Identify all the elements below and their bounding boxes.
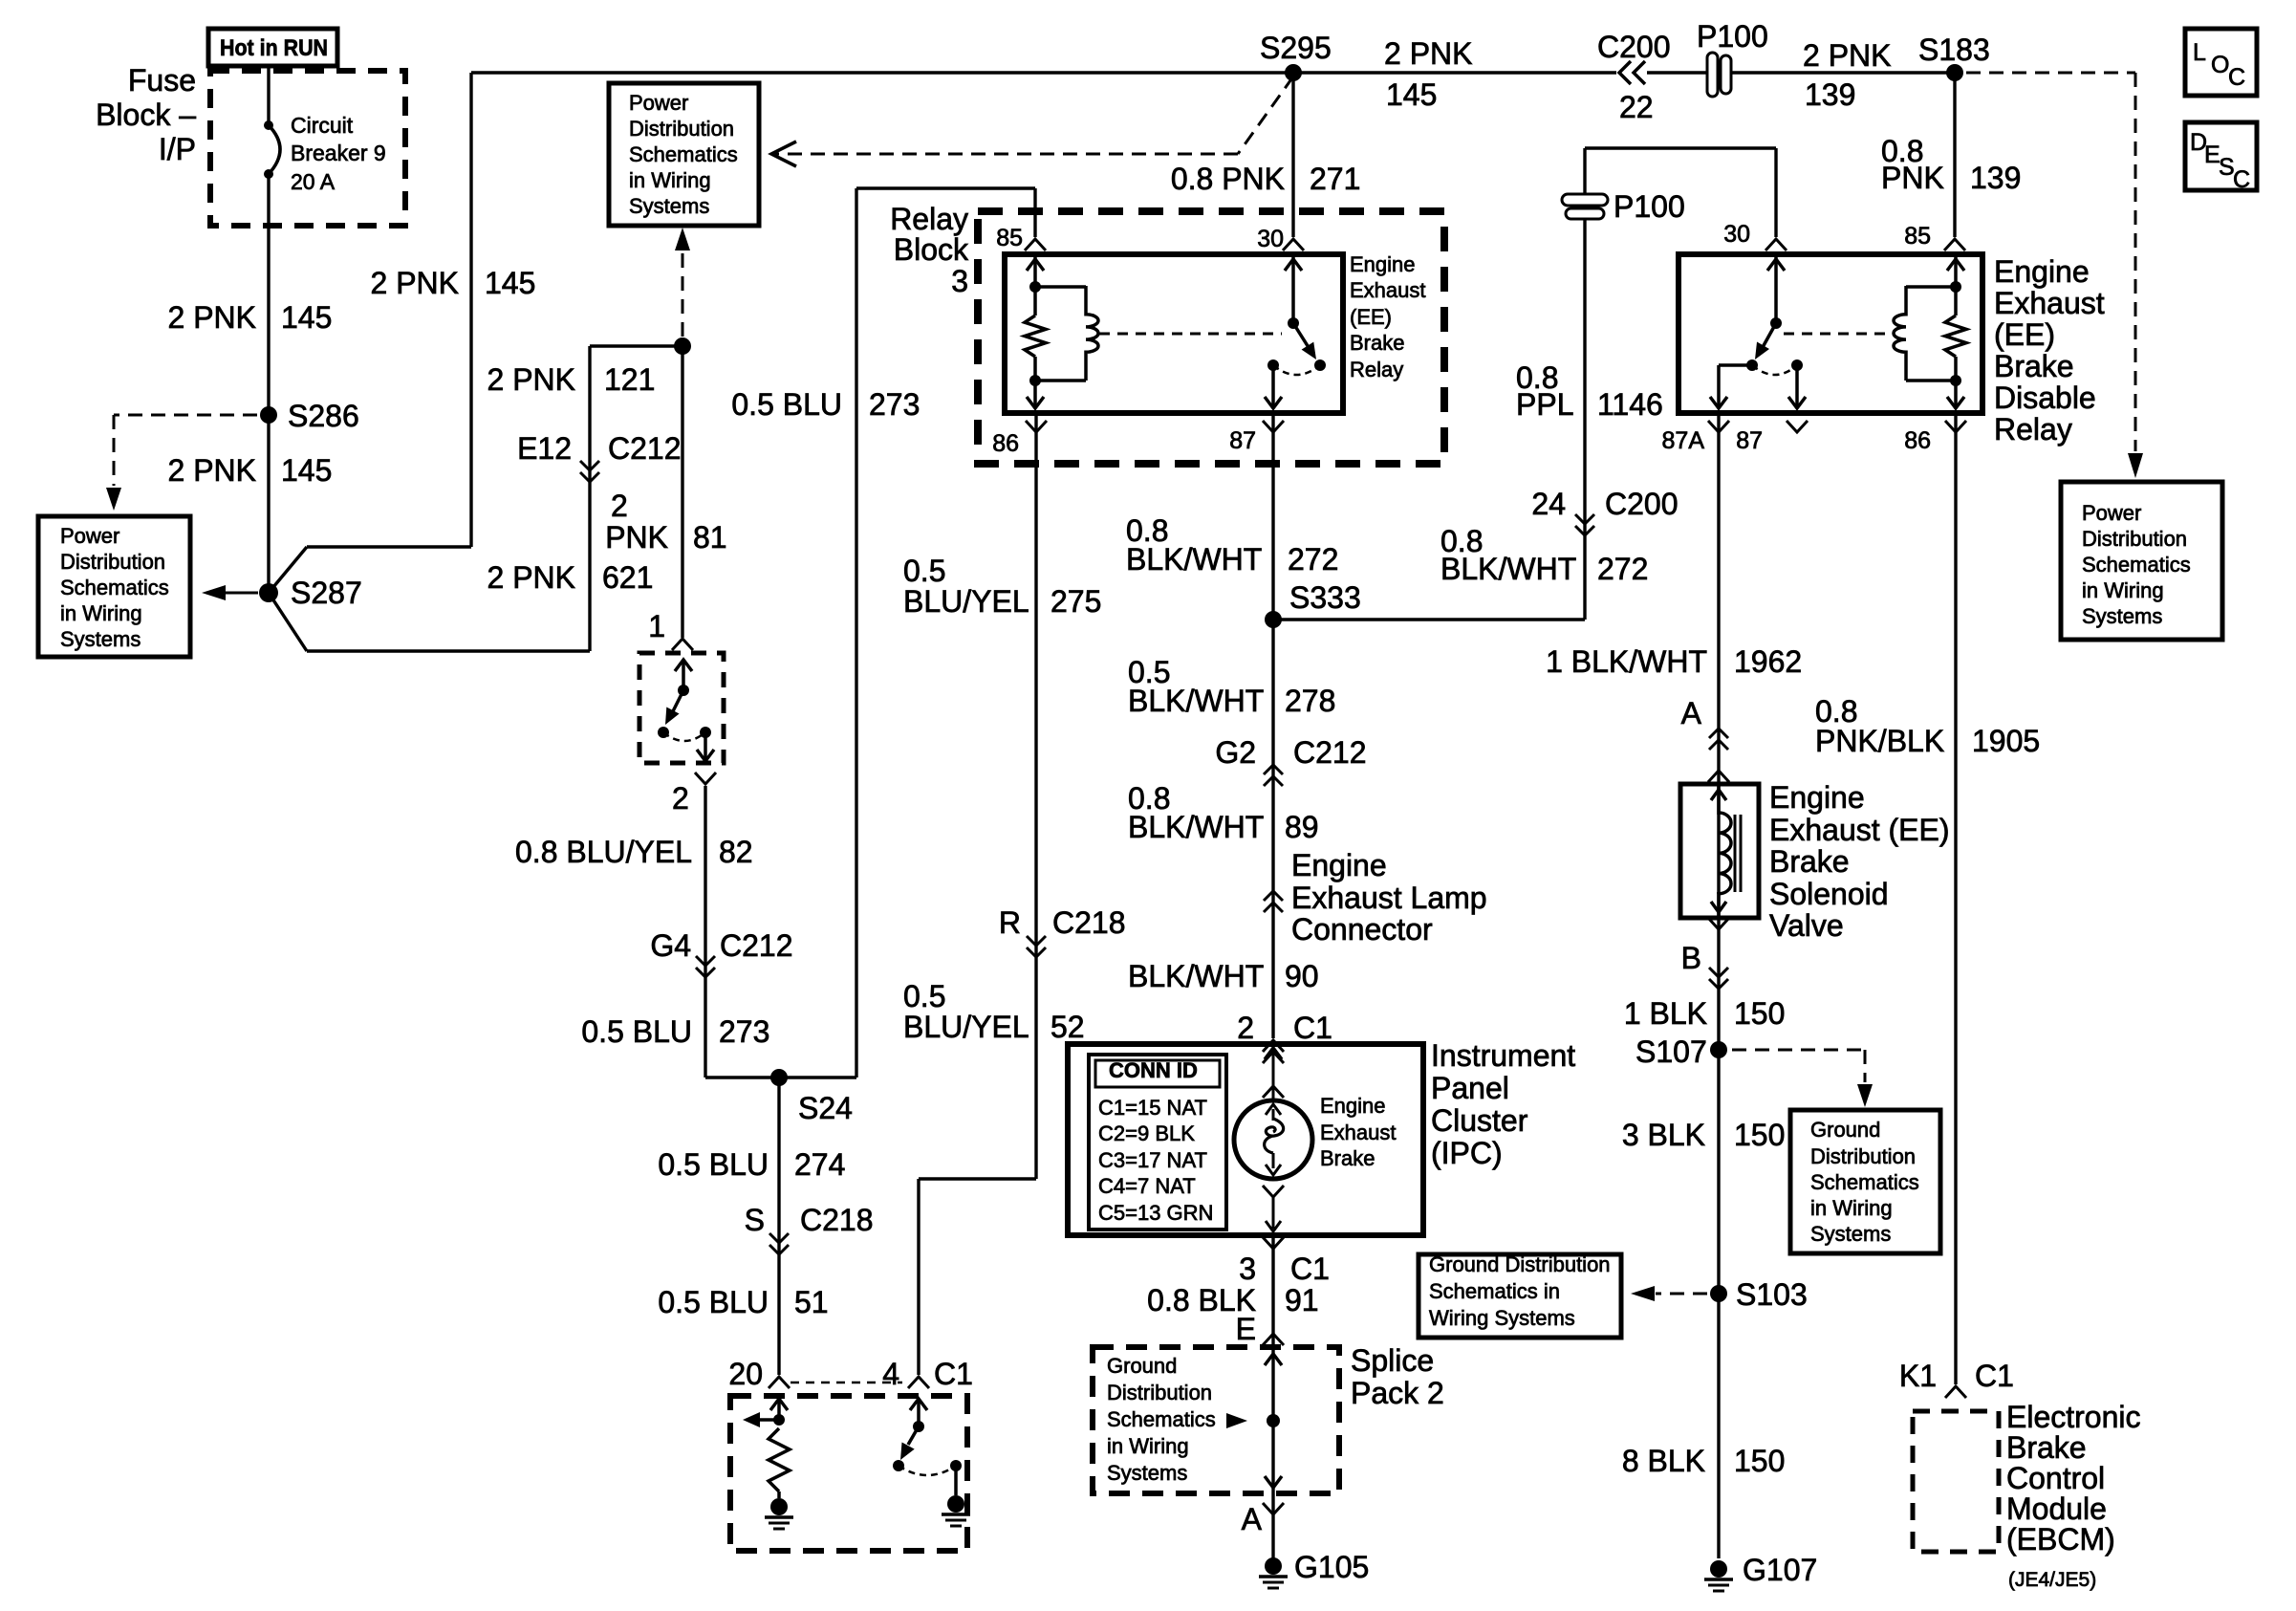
svg-text:275: 275	[1051, 584, 1101, 619]
svg-text:Pack 2: Pack 2	[1351, 1376, 1444, 1410]
svg-text:Valve: Valve	[1769, 908, 1844, 943]
svg-text:0.8 PNK: 0.8 PNK	[1171, 162, 1285, 196]
svg-text:Systems: Systems	[60, 627, 141, 651]
svg-text:Disable: Disable	[1994, 381, 2096, 415]
svg-text:S286: S286	[288, 399, 359, 433]
svg-text:S24: S24	[798, 1091, 853, 1125]
svg-text:Schematics: Schematics	[1810, 1170, 1919, 1194]
svg-text:in Wiring: in Wiring	[1107, 1434, 1189, 1458]
svg-text:4: 4	[882, 1357, 899, 1391]
svg-text:0.5: 0.5	[903, 979, 945, 1013]
svg-text:BLK/WHT: BLK/WHT	[1128, 959, 1264, 993]
svg-text:1 BLK/WHT: 1 BLK/WHT	[1546, 644, 1707, 679]
svg-text:(EE): (EE)	[1350, 305, 1392, 329]
svg-text:S103: S103	[1736, 1277, 1808, 1312]
svg-text:Power: Power	[629, 91, 688, 115]
svg-text:3 BLK: 3 BLK	[1622, 1118, 1705, 1152]
svg-text:20 A: 20 A	[291, 169, 336, 194]
svg-text:in Wiring: in Wiring	[629, 168, 711, 192]
svg-text:G105: G105	[1294, 1550, 1369, 1584]
svg-text:G107: G107	[1743, 1553, 1817, 1587]
svg-text:C212: C212	[608, 431, 682, 466]
svg-text:Exhaust: Exhaust	[1320, 1121, 1397, 1144]
svg-text:Engine: Engine	[1350, 252, 1416, 276]
svg-text:2 PNK: 2 PNK	[1384, 36, 1472, 71]
svg-text:C1: C1	[934, 1357, 973, 1391]
svg-text:Distribution: Distribution	[2082, 527, 2187, 551]
svg-text:1905: 1905	[1972, 724, 2040, 758]
svg-text:85: 85	[996, 225, 1023, 251]
svg-text:139: 139	[1805, 77, 1855, 112]
svg-text:P100: P100	[1614, 189, 1685, 224]
svg-text:0.5: 0.5	[903, 554, 945, 588]
svg-text:E: E	[1236, 1312, 1256, 1346]
svg-text:0.5 BLU: 0.5 BLU	[658, 1147, 769, 1182]
svg-text:Brake: Brake	[1350, 331, 1404, 355]
svg-text:87: 87	[1229, 427, 1256, 454]
svg-text:Ground: Ground	[1810, 1118, 1880, 1142]
svg-text:Systems: Systems	[629, 194, 709, 218]
svg-text:(EBCM): (EBCM)	[2006, 1522, 2115, 1557]
svg-text:0.5 BLU: 0.5 BLU	[658, 1285, 769, 1319]
svg-text:(JE4/JE5): (JE4/JE5)	[2008, 1569, 2096, 1591]
svg-text:Splice: Splice	[1351, 1343, 1434, 1378]
svg-text:R: R	[999, 905, 1021, 940]
svg-text:20: 20	[728, 1357, 763, 1391]
svg-text:C: C	[2233, 166, 2250, 193]
svg-text:Ground: Ground	[1107, 1354, 1177, 1378]
svg-text:2: 2	[611, 489, 628, 523]
svg-text:C218: C218	[1052, 905, 1126, 940]
svg-text:C3=17 NAT: C3=17 NAT	[1098, 1148, 1207, 1172]
svg-text:L: L	[2193, 39, 2206, 66]
svg-text:91: 91	[1285, 1283, 1319, 1317]
svg-text:PNK: PNK	[1881, 161, 1944, 195]
svg-text:24: 24	[1531, 487, 1566, 521]
svg-text:C: C	[2228, 64, 2245, 91]
svg-text:Solenoid: Solenoid	[1769, 877, 1889, 911]
svg-text:in Wiring: in Wiring	[2082, 578, 2164, 602]
svg-text:Schematics: Schematics	[1107, 1407, 1216, 1431]
svg-text:C5=13 GRN: C5=13 GRN	[1098, 1201, 1213, 1225]
svg-text:K1: K1	[1899, 1359, 1937, 1393]
svg-text:271: 271	[1310, 162, 1360, 196]
svg-text:278: 278	[1285, 684, 1335, 718]
svg-text:87A: 87A	[1662, 427, 1705, 454]
svg-text:S107: S107	[1635, 1034, 1707, 1069]
svg-text:Exhaust (EE): Exhaust (EE)	[1769, 813, 1950, 847]
svg-text:30: 30	[1723, 221, 1750, 248]
svg-text:in Wiring: in Wiring	[1810, 1196, 1893, 1220]
svg-text:Ground Distribution: Ground Distribution	[1429, 1252, 1611, 1276]
svg-text:P100: P100	[1697, 19, 1768, 54]
svg-text:272: 272	[1597, 552, 1648, 586]
svg-text:150: 150	[1734, 996, 1785, 1031]
svg-text:in Wiring: in Wiring	[60, 601, 142, 625]
svg-text:2 PNK: 2 PNK	[1803, 38, 1891, 73]
svg-text:Relay: Relay	[1350, 358, 1403, 381]
svg-text:3: 3	[1239, 1252, 1256, 1286]
svg-text:Block: Block	[894, 232, 969, 267]
svg-text:150: 150	[1734, 1118, 1785, 1152]
svg-text:G4: G4	[650, 928, 691, 963]
svg-text:81: 81	[693, 520, 727, 555]
svg-text:Schematics: Schematics	[60, 576, 169, 599]
svg-text:145: 145	[1386, 77, 1437, 112]
svg-text:52: 52	[1051, 1010, 1085, 1044]
svg-text:Power: Power	[60, 524, 119, 548]
svg-text:C200: C200	[1605, 487, 1679, 521]
svg-text:CONN ID: CONN ID	[1109, 1058, 1198, 1082]
svg-text:Control: Control	[2006, 1461, 2105, 1495]
svg-text:Distribution: Distribution	[60, 550, 165, 574]
svg-text:B: B	[1681, 941, 1701, 975]
svg-text:PPL: PPL	[1516, 387, 1573, 422]
svg-text:Electronic: Electronic	[2006, 1400, 2141, 1434]
svg-text:Distribution: Distribution	[629, 117, 734, 141]
svg-text:82: 82	[719, 835, 753, 869]
svg-text:Breaker 9: Breaker 9	[291, 141, 386, 165]
svg-text:C1: C1	[1293, 1011, 1332, 1045]
svg-text:273: 273	[869, 387, 920, 422]
svg-text:1 BLK: 1 BLK	[1624, 996, 1707, 1031]
svg-text:0.5 BLU: 0.5 BLU	[581, 1014, 692, 1049]
svg-text:C1=15 NAT: C1=15 NAT	[1098, 1096, 1207, 1120]
svg-text:Engine: Engine	[1994, 254, 2090, 289]
svg-text:Cluster: Cluster	[1431, 1103, 1528, 1138]
svg-text:Brake: Brake	[1320, 1146, 1375, 1170]
svg-text:Wiring Systems: Wiring Systems	[1429, 1306, 1575, 1330]
svg-text:BLK/WHT: BLK/WHT	[1128, 810, 1264, 844]
svg-text:(IPC): (IPC)	[1431, 1136, 1503, 1170]
svg-text:Relay: Relay	[1994, 412, 2072, 446]
svg-text:51: 51	[794, 1285, 829, 1319]
svg-text:PNK: PNK	[605, 520, 668, 555]
svg-text:BLK/WHT: BLK/WHT	[1128, 684, 1264, 718]
svg-text:G2: G2	[1215, 735, 1256, 770]
svg-text:85: 85	[1904, 223, 1931, 250]
svg-text:Instrument: Instrument	[1431, 1038, 1575, 1073]
svg-text:BLK/WHT: BLK/WHT	[1440, 552, 1576, 586]
svg-text:Circuit: Circuit	[291, 113, 354, 138]
svg-text:3: 3	[951, 264, 968, 298]
svg-text:621: 621	[602, 560, 653, 595]
svg-text:8 BLK: 8 BLK	[1622, 1444, 1705, 1478]
svg-text:Panel: Panel	[1431, 1071, 1509, 1105]
svg-text:1: 1	[648, 609, 665, 643]
svg-text:(EE): (EE)	[1994, 317, 2055, 352]
svg-text:145: 145	[485, 266, 535, 300]
svg-text:1962: 1962	[1734, 644, 1802, 679]
svg-text:Engine: Engine	[1769, 780, 1865, 815]
svg-text:30: 30	[1257, 226, 1284, 252]
svg-text:A: A	[1681, 696, 1702, 730]
svg-text:Distribution: Distribution	[1810, 1144, 1916, 1168]
svg-text:Schematics: Schematics	[629, 142, 738, 166]
svg-text:Brake: Brake	[1994, 349, 2074, 383]
svg-text:Hot in RUN: Hot in RUN	[220, 35, 328, 61]
svg-text:E12: E12	[517, 431, 572, 466]
svg-text:89: 89	[1285, 810, 1319, 844]
svg-text:S183: S183	[1918, 33, 1990, 67]
svg-text:90: 90	[1285, 959, 1319, 993]
svg-text:C200: C200	[1597, 30, 1671, 64]
svg-text:BLU/YEL: BLU/YEL	[903, 1010, 1029, 1044]
svg-text:Power: Power	[2082, 501, 2141, 525]
svg-text:Exhaust Lamp: Exhaust Lamp	[1291, 881, 1487, 915]
svg-text:C2=9 BLK: C2=9 BLK	[1098, 1121, 1195, 1145]
svg-text:C212: C212	[1293, 735, 1367, 770]
svg-text:S333: S333	[1289, 580, 1361, 615]
svg-text:Relay: Relay	[890, 202, 968, 236]
svg-text:2 PNK: 2 PNK	[487, 560, 575, 595]
svg-text:1146: 1146	[1597, 387, 1663, 422]
svg-text:C4=7 NAT: C4=7 NAT	[1098, 1174, 1196, 1198]
svg-text:274: 274	[794, 1147, 845, 1182]
svg-text:150: 150	[1734, 1444, 1785, 1478]
svg-text:87: 87	[1736, 427, 1763, 454]
svg-text:22: 22	[1619, 90, 1654, 124]
svg-text:C212: C212	[720, 928, 793, 963]
svg-text:Fuse: Fuse	[128, 63, 196, 98]
svg-text:O: O	[2211, 52, 2229, 78]
svg-text:86: 86	[992, 430, 1019, 457]
svg-text:BLK/WHT: BLK/WHT	[1126, 542, 1262, 577]
svg-text:121: 121	[604, 362, 655, 397]
svg-text:Distribution: Distribution	[1107, 1381, 1212, 1404]
svg-text:Brake: Brake	[2006, 1430, 2087, 1465]
svg-text:S: S	[745, 1203, 765, 1237]
svg-text:C218: C218	[800, 1203, 874, 1237]
svg-text:272: 272	[1288, 542, 1338, 577]
svg-text:145: 145	[281, 300, 332, 335]
svg-text:145: 145	[281, 453, 332, 488]
svg-text:Exhaust: Exhaust	[1994, 286, 2105, 320]
svg-text:I/P: I/P	[159, 132, 196, 166]
svg-text:Module: Module	[2006, 1491, 2107, 1526]
svg-text:Schematics in: Schematics in	[1429, 1279, 1560, 1303]
svg-text:Block –: Block –	[96, 98, 196, 132]
svg-text:2 PNK: 2 PNK	[371, 266, 459, 300]
svg-text:0.5 BLU: 0.5 BLU	[731, 387, 842, 422]
svg-text:0.8 BLU/YEL: 0.8 BLU/YEL	[515, 835, 692, 869]
svg-text:C1: C1	[1290, 1252, 1330, 1286]
svg-text:2: 2	[672, 781, 689, 816]
svg-text:Brake: Brake	[1769, 844, 1850, 879]
svg-text:Schematics: Schematics	[2082, 553, 2191, 577]
svg-text:273: 273	[719, 1014, 769, 1049]
svg-text:Exhaust: Exhaust	[1350, 278, 1426, 302]
svg-text:2: 2	[1237, 1011, 1254, 1045]
svg-text:Systems: Systems	[1810, 1222, 1891, 1246]
svg-text:BLU/YEL: BLU/YEL	[903, 584, 1029, 619]
svg-text:A: A	[1242, 1502, 1263, 1536]
svg-text:PNK/BLK: PNK/BLK	[1815, 724, 1944, 758]
svg-text:2 PNK: 2 PNK	[168, 453, 256, 488]
svg-text:86: 86	[1904, 427, 1931, 454]
svg-text:2 PNK: 2 PNK	[168, 300, 256, 335]
svg-text:139: 139	[1970, 161, 2021, 195]
svg-text:Connector: Connector	[1291, 912, 1433, 947]
svg-text:Engine: Engine	[1320, 1094, 1386, 1118]
svg-text:Engine: Engine	[1291, 848, 1387, 882]
svg-text:C1: C1	[1975, 1359, 2014, 1393]
svg-text:Systems: Systems	[2082, 604, 2162, 628]
svg-text:Systems: Systems	[1107, 1461, 1187, 1485]
svg-text:2 PNK: 2 PNK	[487, 362, 575, 397]
svg-text:S287: S287	[291, 576, 362, 610]
svg-text:S295: S295	[1260, 31, 1332, 65]
